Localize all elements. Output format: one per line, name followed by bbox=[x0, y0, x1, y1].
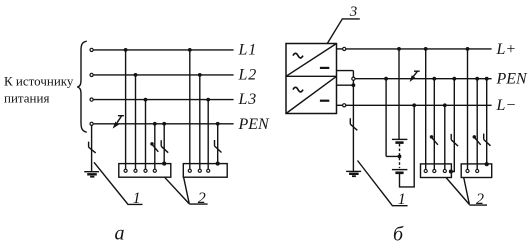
wire: PEN tap to box4 frame bbox=[486, 79, 488, 164]
box3: exposed conductive part (load b1) bbox=[421, 164, 452, 178]
junction dot L3 tap bbox=[144, 98, 148, 102]
- symbol cell2 bbox=[320, 100, 329, 102]
wire PEN bbox=[94, 123, 234, 125]
junction dot L1 tap bbox=[124, 48, 128, 52]
switch SA2 on PE conductor bbox=[215, 140, 222, 153]
box1 terminals bbox=[124, 169, 127, 172]
junction dot bbox=[466, 47, 470, 51]
wire: PEN tap to box3 frame bbox=[451, 79, 454, 172]
battery dashed link 2 bbox=[399, 158, 401, 168]
junction dot bbox=[432, 77, 436, 81]
svg-text:а: а bbox=[115, 223, 125, 245]
terminal L+ bbox=[343, 47, 346, 50]
switch SB2 on PE conductor bbox=[484, 134, 491, 146]
leader to label 1 (scheme a) bbox=[94, 162, 143, 204]
wire PEN bbox=[355, 78, 491, 80]
junction dot on box2 frame bbox=[216, 162, 220, 166]
wire L3 bbox=[94, 99, 234, 101]
wire: PEN terminal to earth bbox=[91, 125, 93, 171]
svg-text:L+: L+ bbox=[496, 41, 517, 58]
leader to label 1 (scheme b) bbox=[358, 161, 408, 206]
junction dot on PEN bbox=[384, 77, 388, 81]
wire: L2 tap to box1 bbox=[135, 75, 137, 169]
svg-text:К источнику: К источнику bbox=[4, 74, 74, 89]
junction dot bbox=[188, 48, 192, 52]
ground (earth electrode 1, scheme a) bbox=[84, 171, 99, 173]
junction dot battery midpoint bbox=[398, 155, 402, 159]
wire converter to L- terminal bbox=[337, 104, 343, 106]
terminal T4 (PEN source) bbox=[90, 122, 93, 125]
wire: PEN tap to box1 N terminal bbox=[154, 124, 156, 169]
junction dot bbox=[206, 98, 210, 102]
wire: PEN tap to box4 M terminal bbox=[476, 79, 478, 170]
wire: battery bottom to L- bbox=[400, 105, 415, 187]
svg-text:L−: L− bbox=[496, 97, 517, 114]
terminal PEN (midpoint) bbox=[352, 77, 355, 80]
switch SB1 on PE conductor bbox=[451, 134, 458, 146]
svg-text:PEN: PEN bbox=[496, 71, 529, 88]
junction dot on box4 frame bbox=[485, 162, 489, 166]
leader to label 3 bbox=[327, 19, 360, 44]
junction dot PEN tap bbox=[153, 122, 157, 126]
terminal T1 (L1 source) bbox=[90, 48, 93, 51]
svg-text:L2: L2 bbox=[238, 66, 258, 83]
wire L2 bbox=[94, 74, 234, 76]
svg-text:L1: L1 bbox=[238, 41, 258, 58]
box2: exposed conductive part (load a2) bbox=[183, 164, 227, 178]
wire: L3 tap to box2 bbox=[207, 100, 209, 170]
brace (source side) bbox=[77, 41, 87, 132]
wire: PEN tap to box1 frame bbox=[163, 124, 165, 164]
wire: PEN tap to box3 M terminal bbox=[433, 79, 435, 170]
leader to label 2 (scheme b) bbox=[446, 178, 487, 206]
wire: L- tap to box3 bbox=[444, 105, 446, 169]
junction dot on box1 frame bbox=[162, 162, 166, 166]
box2 terminals bbox=[188, 169, 191, 172]
box3 terminals bbox=[424, 169, 427, 172]
switch SA1 on PE conductor bbox=[161, 140, 168, 152]
switch SA0 on earthing conductor bbox=[89, 142, 96, 153]
svg-text:2: 2 bbox=[198, 190, 206, 207]
junction dot bbox=[162, 122, 166, 126]
breaker contact on PEN-M conductor 2 bbox=[473, 135, 477, 139]
wire L1 bbox=[94, 49, 234, 51]
wire: midpoint to earth bbox=[352, 81, 354, 172]
svg-text:1: 1 bbox=[398, 191, 406, 208]
svg-text:3: 3 bbox=[349, 4, 358, 20]
breaker contact on PEN-N conductor bbox=[150, 142, 154, 146]
junction dot bbox=[452, 77, 456, 81]
svg-text:2: 2 bbox=[476, 191, 484, 208]
wire: L3 tap to box1 bbox=[145, 100, 147, 170]
~ symbol cell1 bbox=[293, 53, 303, 58]
box4: exposed conductive part (load b2) bbox=[461, 164, 492, 178]
battery GB2 cell plates bbox=[392, 169, 408, 171]
wire L+ bbox=[346, 48, 492, 50]
terminal L- bbox=[343, 104, 346, 107]
wire: L+ tap to box4 bbox=[467, 49, 469, 169]
- symbol cell1 bbox=[320, 67, 329, 69]
~ symbol cell2 bbox=[293, 87, 303, 92]
junction dot bbox=[443, 103, 447, 107]
battery GB1 cell plates bbox=[392, 138, 408, 140]
switch SB0 on earthing conductor bbox=[350, 118, 357, 130]
box4 terminals bbox=[466, 169, 469, 172]
wire: PEN tap to box2 frame bbox=[217, 124, 219, 164]
wire converter to L+ terminal bbox=[337, 48, 343, 50]
junction dot bbox=[485, 77, 489, 81]
junction dot bbox=[216, 122, 220, 126]
junction dot on L- bbox=[412, 103, 416, 107]
wire: L+ tap to battery bbox=[398, 49, 400, 139]
wire: L1 tap to box2 bbox=[189, 50, 191, 169]
terminal T3 (L3 source) bbox=[90, 98, 93, 101]
converter U3 (AC/DC) bbox=[286, 44, 337, 114]
wire converter midpoint upper bbox=[337, 71, 354, 77]
wire: L2 tap to box2 bbox=[199, 75, 201, 169]
junction dot bbox=[397, 47, 401, 51]
svg-text:PEN: PEN bbox=[238, 116, 271, 133]
terminal T2 (L2 source) bbox=[90, 73, 93, 76]
surge arrow on PEN (scheme b) bbox=[410, 71, 420, 82]
junction dot bbox=[475, 77, 479, 81]
wire: L+ tap to box3 bbox=[425, 49, 427, 169]
breaker contact on PEN-M conductor bbox=[430, 135, 434, 139]
wire L- bbox=[346, 104, 492, 106]
junction dot midpoint bbox=[352, 83, 356, 87]
wire: L1 tap to box1 bbox=[125, 50, 127, 169]
svg-text:1: 1 bbox=[133, 190, 141, 207]
svg-text:L3: L3 bbox=[238, 91, 258, 108]
leader to label 2 (scheme a) bbox=[165, 177, 208, 204]
junction dot on box3 frame bbox=[449, 169, 453, 173]
svg-text:б: б bbox=[393, 224, 404, 246]
ground (earth electrode 1, scheme b) bbox=[346, 170, 361, 172]
junction dot bbox=[424, 47, 428, 51]
box1: exposed conductive part (load a1) bbox=[119, 164, 171, 178]
svg-text:питания: питания bbox=[4, 91, 49, 106]
surge arrow on PEN (scheme a) bbox=[113, 116, 124, 129]
junction dot bbox=[198, 73, 202, 77]
junction dot L2 tap bbox=[134, 73, 138, 77]
text: К источнику питания bbox=[4, 74, 74, 106]
wire converter midpoint lower bbox=[337, 84, 354, 86]
battery dashed link bbox=[399, 144, 401, 155]
wire: PEN tap to battery midpoint bbox=[386, 79, 399, 157]
